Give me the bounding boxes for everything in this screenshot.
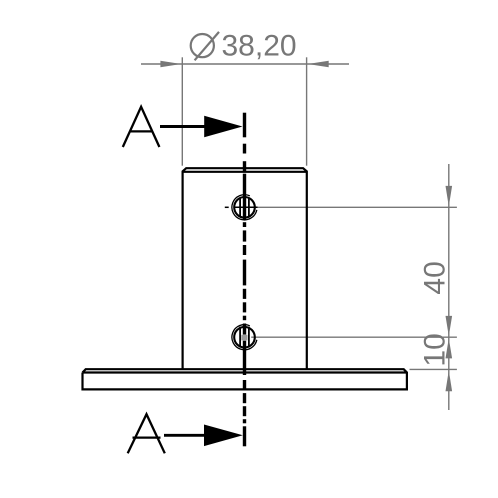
flange outline	[83, 369, 407, 389]
section arrow head A bottom (points right)	[204, 425, 243, 447]
section label A top	[123, 107, 160, 147]
extension line right of tube	[306, 57, 308, 165]
dim 10 arrow top (points up)	[446, 338, 453, 358]
section arrow line A bottom	[164, 434, 230, 437]
extension line left of tube	[181, 57, 183, 165]
set screw hole upper: thread arc	[232, 195, 257, 220]
section arrow head A top (points right)	[204, 116, 242, 138]
vertical centerline (dash-dot)	[243, 113, 246, 447]
set screw hole lower: thread arc	[232, 325, 257, 350]
dim 10 arrow bottom (points up)	[446, 370, 453, 391]
section label A bottom	[128, 414, 165, 453]
gray center mark blob lower hole	[241, 335, 247, 341]
dim 40 arrow top (points down)	[446, 186, 453, 207]
tube body outline	[183, 168, 307, 369]
section arrow line A top	[160, 125, 230, 128]
diameter symbol	[191, 32, 219, 60]
extension line lower hole center	[251, 336, 457, 338]
set screw hole upper: horizontal center mark	[235, 206, 258, 208]
extension line flange top	[410, 368, 457, 370]
dim 40 arrow bottom (points down)	[446, 316, 453, 336]
set screw hole lower: bold circle	[234, 327, 255, 348]
dimension arrow left (points right)	[160, 61, 181, 68]
svg-text:38,20: 38,20	[222, 29, 297, 62]
svg-text:10: 10	[418, 333, 451, 366]
extension line upper hole center	[258, 206, 457, 208]
dimension 38,20 horizontal dimension line	[141, 57, 349, 165]
set screw hole upper: bold circle	[234, 197, 255, 218]
flange top chamfer edge line	[83, 371, 407, 373]
right vertical dimension line	[448, 164, 450, 410]
svg-text:40: 40	[418, 261, 451, 294]
set screw hole upper: hex socket flats	[239, 197, 241, 217]
set screw hole lower: hex socket flats	[239, 327, 241, 348]
dimension arrow right (points left)	[308, 61, 329, 68]
tube top chamfer edge line	[183, 171, 307, 173]
